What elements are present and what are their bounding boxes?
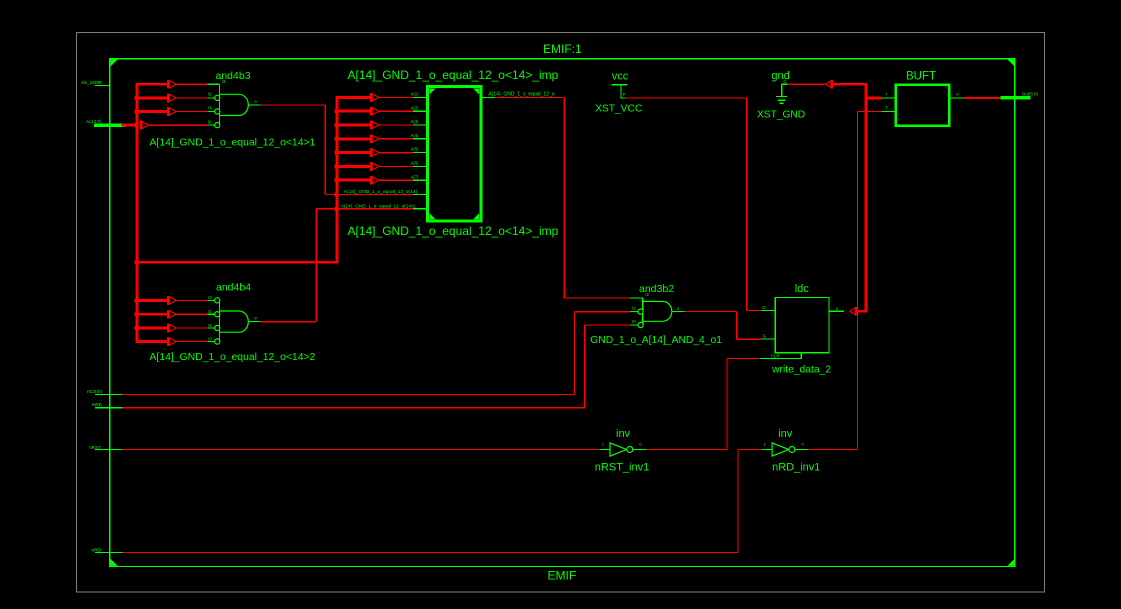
port nWE stub: [95, 407, 123, 409]
wire nRST_inv1 output riser to CLR: [726, 359, 728, 450]
wire into block imp pin 8: [325, 193, 413, 195]
svg-text:ldc: ldc: [795, 283, 810, 295]
wire nRD to nRD_inv1 input: [738, 448, 762, 450]
wire and3b2 I1 riser: [574, 312, 576, 395]
svg-text:nRST: nRST: [89, 445, 101, 451]
block imp pin A(1) stub: [413, 96, 427, 98]
block imp input A(5) bus segment: [336, 151, 371, 154]
svg-text:inv: inv: [616, 428, 631, 440]
wire T net vertical: [856, 112, 858, 450]
wire and3b2 output horizontal: [685, 310, 737, 312]
ldc output stub: [830, 310, 844, 312]
block imp input A(4) bus segment: [336, 137, 371, 140]
svg-text:and3b2: and3b2: [639, 283, 674, 295]
svg-text:G: G: [763, 334, 766, 339]
block imp input A(3) bus tap: [370, 121, 372, 130]
wire and4b3 output horizontal: [260, 104, 325, 106]
and4b3 input I1 wire: [177, 111, 208, 113]
and4b4 input I0 bus segment: [136, 340, 168, 343]
wire to ldc CLR horizontal: [727, 358, 760, 360]
block imp pin A(6) stub: [413, 165, 427, 167]
latch ldc body: [775, 298, 829, 353]
svg-text:write_data_2: write_data_2: [771, 364, 831, 375]
block imp input A(2) bus segment: [336, 110, 371, 113]
svg-text:Out(5:0): Out(5:0): [1022, 92, 1039, 97]
wire and3b2 I1 horizontal: [575, 311, 631, 313]
and4b4 input I0 bus tap: [167, 337, 169, 346]
wire and4b4 output horizontal: [260, 321, 316, 323]
svg-text:XST_GND: XST_GND: [757, 110, 805, 121]
svg-text:A(1): A(1): [411, 92, 420, 97]
svg-text:and4b3: and4b3: [216, 70, 251, 82]
block imp input A(3) bus segment: [336, 124, 371, 127]
svg-text:inv: inv: [778, 428, 793, 440]
and3b2 pin I1 stub: [631, 311, 639, 313]
svg-text:A[14]_GND_1_o_equal_12_o<14>_i: A[14]_GND_1_o_equal_12_o<14>_imp: [348, 224, 559, 238]
svg-text:o: o: [639, 442, 642, 447]
and4b3 input I0 wire: [149, 124, 207, 126]
wire bus connector horizontal to block trunk: [136, 261, 339, 264]
wire nRD horizontal run: [123, 551, 738, 553]
svg-text:GND_1_o_A[14]_AND_4_o1: GND_1_o_A[14]_AND_4_o1: [590, 335, 722, 346]
nRST_inv1 input stub: [599, 448, 610, 450]
svg-text:XST_VCC: XST_VCC: [595, 103, 642, 114]
svg-text:I2: I2: [208, 309, 212, 314]
wire nRST_inv1 output horizontal: [646, 448, 727, 450]
block imp pin A(5) stub: [413, 152, 427, 154]
and4b4 input I2 bus segment: [136, 313, 168, 316]
svg-text:A(3): A(3): [411, 119, 420, 124]
svg-text:I2: I2: [208, 91, 212, 96]
block imp pin 9 stub: [413, 208, 427, 210]
svg-text:and4b4: and4b4: [216, 282, 251, 294]
ldc pin CLR stub: [760, 353, 801, 359]
and4b3 pin I2 stub: [207, 97, 214, 99]
and4b3 pin I2 bubble: [215, 95, 220, 100]
ldc output arrow: [850, 308, 856, 315]
block imp input A(1) wire: [379, 96, 413, 98]
svg-text:o: o: [677, 306, 680, 311]
block imp input A(3) wire: [379, 124, 413, 126]
svg-text:A(14)_GND_1_o_equal_12_o: A(14)_GND_1_o_equal_12_o: [488, 91, 554, 97]
wire and4b4 output vertical rise: [315, 209, 317, 322]
wire bus A(14:0) to trunk: [122, 124, 137, 127]
block imp pin A(7) stub: [413, 179, 427, 181]
power symbol vcc: [612, 85, 627, 98]
block EMIF boundary: [110, 59, 1015, 567]
svg-text:EMIF: EMIF: [548, 568, 577, 582]
and3b2 pin I0 bubble: [638, 322, 643, 327]
junction marks on bus trunks: [134, 96, 336, 330]
svg-text:CLR: CLR: [771, 353, 780, 358]
block imp input A(7) bus segment: [336, 179, 371, 182]
and4b4 pin I0 bubble: [215, 339, 220, 344]
ground symbol gnd: [776, 84, 787, 103]
wire into block imp pin 9: [316, 208, 413, 210]
svg-text:A(5): A(5): [411, 147, 420, 152]
and3b2 pin I0 stub: [631, 324, 639, 326]
svg-text:I1: I1: [208, 105, 212, 110]
svg-text:I: I: [602, 442, 603, 447]
svg-text:EMIF:1: EMIF:1: [543, 42, 582, 56]
BUFT pin I stub: [882, 97, 895, 99]
block imp input A(6) bus segment: [336, 165, 371, 168]
block imp corner mark top-left: [430, 89, 436, 95]
and4b4 pin I3 stub: [207, 299, 214, 301]
and4b3 input I1 bus segment: [136, 110, 168, 113]
buffer BUFT body: [896, 85, 949, 126]
wire nCS to and3b2 I1 riser: [123, 394, 575, 396]
svg-text:P: P: [623, 92, 626, 97]
block imp output stub: [481, 96, 495, 98]
svg-text:T: T: [886, 105, 889, 110]
and4b3 input I2 bus segment: [136, 97, 168, 100]
wire and3b2 output to ldc G: [737, 338, 761, 340]
svg-text:I: I: [886, 92, 887, 97]
block imp input A(6) bus tap: [370, 162, 372, 171]
and4b3 pin I3 stub: [207, 83, 219, 85]
nRD_inv1 input stub: [762, 448, 773, 450]
and4b3 input I2 bus tap: [167, 94, 169, 103]
svg-text:I0: I0: [208, 120, 212, 125]
svg-text:A(6): A(6): [411, 161, 420, 166]
svg-text:nRD_inv1: nRD_inv1: [772, 461, 820, 473]
and4b4 pin I1 stub: [207, 327, 214, 329]
block imp input A(2) bus tap: [370, 107, 372, 116]
and4b4 input I2 wire: [177, 313, 208, 315]
and4b4 input I0 wire: [177, 341, 208, 343]
and4b4 gate body: [218, 300, 220, 341]
and4b3 input I3 wire: [177, 83, 208, 85]
block imp input A(4) wire: [379, 138, 413, 140]
wire block-side bus trunk vertical: [336, 96, 339, 263]
svg-text:I3: I3: [208, 295, 212, 300]
wire vcc to ldc D horizontal: [625, 97, 747, 99]
block imp input A(2) wire: [379, 110, 413, 112]
wire right trunk vertical (gnd/ldc net): [865, 84, 868, 312]
and4b4 pin I2 bubble: [215, 312, 220, 317]
and4b4 output stub: [248, 321, 260, 323]
block A[14]_GND_1_o_equal_12_o<14>_imp body: [428, 87, 481, 222]
wire BUFT output to port: [963, 97, 1001, 99]
svg-text:o: o: [801, 442, 804, 447]
block imp input A(7) wire: [379, 179, 413, 181]
svg-text:gnd: gnd: [771, 70, 789, 82]
BUFT output stub: [951, 97, 964, 99]
wire nWE to and3b2 I0 riser: [123, 407, 585, 409]
svg-text:I1: I1: [632, 306, 636, 311]
nRST_inv1 bubble: [627, 447, 633, 453]
svg-text:A(2): A(2): [411, 105, 420, 110]
svg-text:o: o: [254, 99, 257, 104]
and4b3 pin I0 stub: [207, 124, 214, 126]
port clk_100M stub: [95, 84, 110, 86]
port Out(5:0) bus stub: [1000, 96, 1030, 100]
block imp pin A(3) stub: [413, 124, 427, 126]
and4b4 input I3 wire: [177, 299, 208, 301]
svg-text:vcc: vcc: [612, 70, 629, 82]
svg-text:nRST_inv1: nRST_inv1: [595, 461, 649, 473]
wire block imp output horizontal: [495, 96, 564, 98]
and4b4 input I3 bus tap: [167, 296, 169, 305]
svg-text:I0: I0: [632, 319, 636, 324]
and4b4 input I1 bus tap: [167, 324, 169, 333]
inverter nRD_inv1 body: [772, 443, 789, 456]
wire nRD_inv1 output horizontal: [809, 448, 858, 450]
port nCS(0) stub: [95, 394, 123, 396]
and4b3 pin I0 bubble: [215, 123, 220, 128]
gnd wire arrow: [825, 81, 831, 88]
and4b4 pin I0 stub: [207, 341, 214, 343]
block imp corner mark bottom-right: [473, 213, 479, 219]
wire nRST to inverter nRST_inv1: [123, 448, 600, 450]
svg-text:BUFT: BUFT: [906, 70, 936, 82]
and3b2 pin I1 bubble: [638, 309, 643, 314]
svg-text:A[14]_GND_1_o_equal_12_o<14>2: A[14]_GND_1_o_equal_12_o<14>2: [150, 352, 316, 363]
wire vcc to ldc D pin: [747, 309, 761, 311]
and4b4 input I1 wire: [177, 327, 208, 329]
wire trunk to BUFT I: [865, 97, 882, 100]
and3b2 gate body: [642, 298, 644, 325]
inverter nRST_inv1 body: [610, 443, 627, 456]
svg-text:G: G: [783, 79, 786, 84]
wire to and3b2 top input: [564, 297, 630, 299]
nRD_inv1 output stub: [795, 448, 809, 450]
and4b3 input I3 bus tap: [167, 80, 169, 89]
svg-text:A(4): A(4): [411, 133, 420, 138]
block EMIF corner mark top-left: [111, 59, 118, 66]
svg-text:A[14]_GND_1_o_equal_12_o<14>1: A[14]_GND_1_o_equal_12_o<14>1: [150, 137, 316, 148]
and4b4 input I1 bus segment: [136, 327, 168, 330]
wire and4b3 output vertical drop: [324, 105, 326, 194]
port A(14:0) bus stub: [94, 123, 125, 127]
block imp input A(1) bus tap: [370, 93, 372, 102]
and4b3 input I2 wire: [177, 97, 208, 99]
svg-text:A[14]_GND_1_o_equal_12_o<14>_i: A[14]_GND_1_o_equal_12_o<14>_imp: [348, 68, 559, 82]
block imp input A(5) bus tap: [370, 148, 372, 157]
svg-text:D: D: [762, 305, 765, 310]
block imp input A(4) bus tap: [370, 134, 372, 143]
svg-text:o: o: [836, 306, 839, 311]
wire gnd output: [787, 83, 825, 85]
and4b3 pin I1 bubble: [215, 109, 220, 114]
BUFT pin T stub: [882, 111, 895, 113]
wire and3b2 output vertical: [736, 311, 738, 339]
wire and3b2 I0 horizontal: [585, 324, 631, 326]
block imp input A(1) bus segment: [336, 96, 371, 99]
wire T net to BUFT T: [857, 111, 881, 113]
svg-text:I0: I0: [208, 336, 212, 341]
wire vcc vertical drop: [746, 98, 748, 311]
svg-text:I: I: [764, 442, 765, 447]
svg-text:o: o: [254, 316, 257, 321]
wire ldc output thick segment: [856, 310, 867, 313]
and3b2 pin I2 stub: [630, 297, 643, 299]
wire block imp output vertical drop: [563, 97, 565, 298]
wire gnd thick segment to trunk: [832, 83, 867, 86]
and4b4 input I2 bus tap: [167, 310, 169, 319]
and4b4 input I3 bus segment: [136, 299, 168, 302]
nRST_inv1 output stub: [633, 448, 647, 450]
and4b3 pin I1 stub: [207, 111, 214, 113]
block imp input A(7) bus tap: [370, 176, 372, 185]
block imp pin A(2) stub: [413, 110, 427, 112]
and4b3 gate body: [218, 84, 220, 125]
block EMIF corner mark bottom-right: [1007, 559, 1014, 566]
ldc pin G stub: [761, 338, 775, 340]
nRD_inv1 bubble: [789, 447, 795, 453]
block EMIF corner mark top-right: [1007, 59, 1014, 66]
and4b3 output stub: [248, 104, 260, 106]
and4b4 pin I2 stub: [207, 313, 214, 315]
and3b2 output stub: [672, 310, 685, 312]
wire and3b2 I0 riser: [584, 325, 586, 408]
port nRST stub: [95, 448, 123, 450]
wire nRD riser: [737, 449, 739, 552]
block imp corner mark bottom-left: [430, 213, 436, 219]
svg-text:I1: I1: [208, 323, 212, 328]
and4b3 input I0 bus tap: [140, 121, 142, 130]
and4b4 pin I1 bubble: [215, 325, 220, 330]
and4b3 input I1 bus tap: [167, 107, 169, 116]
svg-text:A(7): A(7): [411, 174, 420, 179]
and4b3 input I3 bus segment: [136, 83, 168, 86]
port nRD stub: [95, 551, 123, 553]
block imp corner mark top-right: [473, 89, 479, 95]
svg-text:o: o: [956, 92, 959, 97]
block EMIF corner mark bottom-left: [111, 559, 118, 566]
and4b4 pin I3 bubble: [215, 298, 220, 303]
outer sheet frame: [77, 33, 1045, 593]
ldc pin D stub: [761, 309, 775, 311]
block imp pin A(4) stub: [413, 138, 427, 140]
block imp input A(6) wire: [379, 165, 413, 167]
wire bus trunk vertical left: [135, 83, 138, 343]
block imp pin 8 stub: [413, 193, 427, 195]
block imp input A(5) wire: [379, 152, 413, 154]
